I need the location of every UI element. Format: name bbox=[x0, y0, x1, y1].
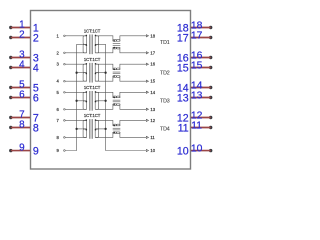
svg-text:1CT:1CT: 1CT:1CT bbox=[84, 57, 101, 62]
svg-text:18: 18 bbox=[150, 33, 155, 38]
svg-text:8: 8 bbox=[19, 119, 25, 130]
svg-text:6: 6 bbox=[19, 89, 25, 100]
svg-text:11: 11 bbox=[178, 122, 189, 134]
svg-text:17: 17 bbox=[150, 50, 155, 55]
svg-text:10: 10 bbox=[177, 146, 189, 158]
svg-text:10: 10 bbox=[191, 144, 203, 155]
svg-text:4: 4 bbox=[19, 59, 25, 70]
svg-text:15: 15 bbox=[150, 79, 155, 84]
svg-text:8: 8 bbox=[33, 122, 39, 134]
svg-text:TD4: TD4 bbox=[160, 127, 170, 133]
svg-text:4: 4 bbox=[33, 62, 39, 74]
svg-text:13: 13 bbox=[191, 91, 203, 102]
svg-text:6: 6 bbox=[33, 92, 39, 104]
svg-text:13: 13 bbox=[177, 92, 189, 104]
svg-text:2: 2 bbox=[33, 32, 39, 44]
svg-text:12: 12 bbox=[150, 118, 155, 123]
svg-text:17: 17 bbox=[177, 32, 189, 44]
svg-text:9: 9 bbox=[33, 146, 39, 158]
svg-text:9: 9 bbox=[19, 142, 25, 153]
svg-text:15: 15 bbox=[191, 61, 203, 72]
svg-text:17: 17 bbox=[191, 31, 203, 42]
svg-text:1CT:1CT: 1CT:1CT bbox=[84, 85, 101, 90]
svg-text:13: 13 bbox=[150, 107, 155, 112]
svg-text:1CT:1CT: 1CT:1CT bbox=[84, 113, 101, 118]
svg-text:11: 11 bbox=[191, 121, 202, 132]
svg-text:14: 14 bbox=[150, 90, 155, 95]
svg-text:TD2: TD2 bbox=[160, 70, 170, 76]
svg-text:TD3: TD3 bbox=[160, 99, 170, 105]
svg-text:2: 2 bbox=[19, 29, 25, 40]
svg-text:TD1: TD1 bbox=[160, 40, 170, 46]
svg-text:11: 11 bbox=[150, 135, 155, 140]
svg-text:15: 15 bbox=[177, 62, 189, 74]
svg-text:16: 16 bbox=[150, 62, 155, 67]
svg-text:1CT:1CT: 1CT:1CT bbox=[84, 28, 101, 33]
svg-text:10: 10 bbox=[150, 148, 155, 153]
